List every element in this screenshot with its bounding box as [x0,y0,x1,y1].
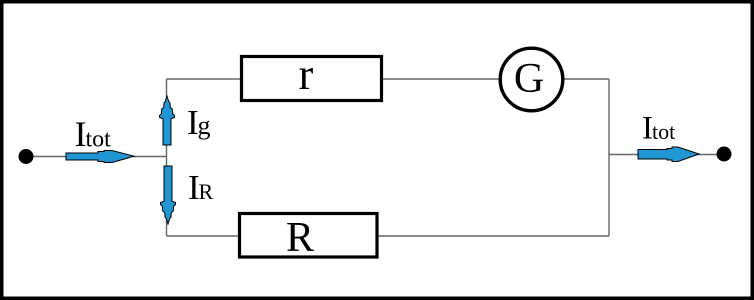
svg-text:tot: tot [652,119,675,144]
svg-text:r: r [299,50,314,99]
svg-text:tot: tot [86,127,112,153]
svg-text:G: G [514,56,544,102]
svg-text:g: g [198,111,211,140]
svg-text:R: R [286,215,314,261]
svg-text:R: R [199,179,214,204]
